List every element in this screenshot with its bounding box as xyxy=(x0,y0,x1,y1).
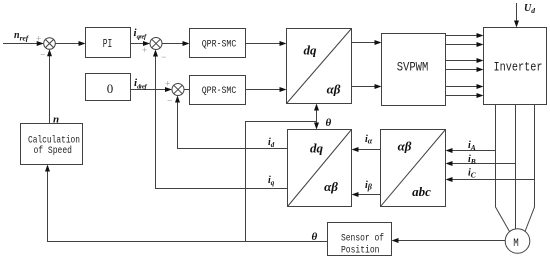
wire QPR-SMC d to inverse park xyxy=(246,89,281,91)
block PI xyxy=(86,28,131,58)
svg-text:αβ: αβ xyxy=(398,139,412,154)
svg-text:nref: nref xyxy=(14,30,30,42)
wire clarke to park i_beta xyxy=(358,194,381,196)
wire motor to sensor xyxy=(398,240,506,242)
svg-text:Position: Position xyxy=(341,244,380,256)
wire QPR-SMC q to inverse park xyxy=(246,43,281,45)
svg-text:−: − xyxy=(40,50,45,60)
block Sensor of Position xyxy=(328,223,392,257)
wire i_B sense xyxy=(452,163,516,165)
svg-text:iq: iq xyxy=(268,175,275,187)
wire inverter phase C down xyxy=(525,105,535,232)
svg-text:αβ: αβ xyxy=(324,179,338,194)
block park transform dq xyxy=(288,130,352,207)
svg-text:Ud: Ud xyxy=(524,3,535,15)
wire n_ref input xyxy=(3,43,37,45)
wire theta branch up to transforms xyxy=(246,122,317,242)
block Calculation of Speed xyxy=(21,124,83,165)
svg-text:+: + xyxy=(142,45,147,55)
svg-text:iβ: iβ xyxy=(365,180,373,192)
wire inverter phase A down xyxy=(496,105,510,232)
svg-text:QPR-SMC: QPR-SMC xyxy=(202,86,237,97)
wire zero to J3 xyxy=(131,89,167,91)
wire J1 to PI xyxy=(55,43,79,45)
wire U_d supply xyxy=(516,3,518,22)
svg-text:M: M xyxy=(513,238,519,250)
svg-text:iα: iα xyxy=(365,134,373,146)
block Inverter xyxy=(484,28,547,105)
summing junction J3 d-current xyxy=(165,79,184,106)
svg-text:αβ: αβ xyxy=(327,82,341,97)
svg-text:Inverter: Inverter xyxy=(494,60,543,75)
wire J2 to QPR-SMC q xyxy=(162,43,184,45)
svg-text:iA: iA xyxy=(468,140,476,152)
svg-text:0: 0 xyxy=(107,81,114,96)
svg-text:−: − xyxy=(167,96,172,106)
summing junction J2 q-current xyxy=(142,38,166,63)
svg-text:θ: θ xyxy=(312,231,318,243)
svg-text:dq: dq xyxy=(310,141,324,156)
svg-text:−: − xyxy=(161,52,166,62)
svg-text:dq: dq xyxy=(304,43,318,58)
block inverse park dq to alpha-beta xyxy=(287,29,352,104)
block QPR-SMC q-axis xyxy=(190,29,246,58)
svg-text:iB: iB xyxy=(468,154,476,166)
svg-text:n: n xyxy=(53,113,59,125)
wire n feedback to J1 xyxy=(49,55,51,124)
svg-text:id: id xyxy=(268,137,275,149)
block zero reference xyxy=(86,74,131,101)
svg-text:QPR-SMC: QPR-SMC xyxy=(202,40,237,51)
wire inverse park to SVPWM upper xyxy=(352,42,376,44)
svg-text:SVPWM: SVPWM xyxy=(397,61,429,75)
svg-text:iC: iC xyxy=(468,168,477,180)
wire i_A sense xyxy=(452,150,496,152)
wire PI to J2 xyxy=(131,43,145,45)
svg-text:Sensor of: Sensor of xyxy=(341,233,384,245)
svg-text:idref: idref xyxy=(134,77,148,90)
wire theta to inverse park up arrow xyxy=(316,110,318,122)
wires SVPWM to Inverter six pwm lines xyxy=(446,33,484,98)
wire i_q feedback to J2 xyxy=(156,56,288,189)
wire J3 to QPR-SMC d xyxy=(184,89,190,91)
wire inverter phase B down xyxy=(515,105,517,230)
motor M xyxy=(505,229,530,254)
wire i_d feedback to J3 xyxy=(178,102,288,149)
wire theta to park down arrow xyxy=(316,122,318,124)
wire i_C sense xyxy=(452,179,535,181)
wire inverse park to SVPWM lower xyxy=(352,86,376,88)
svg-text:+: + xyxy=(165,79,170,89)
svg-text:PI: PI xyxy=(103,38,113,51)
svg-text:abc: abc xyxy=(412,184,431,199)
summing junction J1 speed xyxy=(36,34,55,60)
block SVPWM xyxy=(382,34,446,106)
svg-text:θ: θ xyxy=(326,117,332,129)
wire theta feedback from sensor to calculation of speed xyxy=(48,171,328,242)
wire clarke to park i_alpha xyxy=(358,149,381,151)
block QPR-SMC d-axis xyxy=(190,76,246,105)
svg-text:of Speed: of Speed xyxy=(34,145,73,157)
svg-text:iqref: iqref xyxy=(134,27,148,40)
block clarke transform abc xyxy=(381,130,446,207)
